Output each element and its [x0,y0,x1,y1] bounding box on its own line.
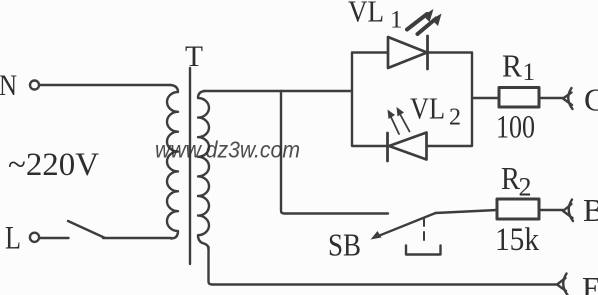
svg-text:N: N [0,69,17,102]
LED VL1 emission arrows [407,14,436,34]
svg-text:www.dz3w.com: www.dz3w.com [155,137,300,163]
LED box outline [352,53,388,147]
resistor R2 [497,199,539,219]
switch SB actuator dashed link [423,218,425,246]
wire R2 to terminal B [539,209,563,211]
wire secondary top to LED box [204,90,352,92]
svg-text:R: R [502,48,523,84]
terminal N [30,81,39,90]
LED VL2 [389,133,427,160]
switch SB button cap [406,246,441,255]
wire SB to R2 [436,210,498,213]
svg-text:VL: VL [410,91,445,126]
LED VL1 [388,37,427,68]
svg-text:B: B [583,192,598,228]
svg-text:15k: 15k [495,222,539,258]
terminal C [563,93,572,106]
transformer T primary winding [167,85,178,239]
svg-text:100: 100 [496,110,535,146]
svg-text:T: T [185,40,203,73]
wire N to transformer primary [40,84,171,86]
transformer T secondary winding [198,91,209,249]
terminal L [30,233,39,242]
wire junction to switch SB [281,91,388,214]
terminal E [557,278,566,291]
svg-text:SB: SB [328,227,361,263]
svg-text:L: L [5,221,21,257]
wire L to switch S [39,237,69,239]
LED VL2 emission arrows [391,114,410,134]
switch SB blade [377,213,436,237]
svg-text:1: 1 [390,7,403,34]
terminal B [563,204,573,218]
svg-text:2: 2 [519,173,532,202]
switch S (mains, open blade) [68,221,104,238]
resistor R1 [499,88,539,108]
LED VL2 cathode bar [386,133,389,161]
transformer core [189,68,191,264]
wire R1 to terminal C [539,97,563,99]
svg-text:E: E [582,270,598,295]
svg-text:2: 2 [449,105,461,131]
svg-text:VL: VL [348,0,384,29]
wire LED box to R1 [472,97,499,99]
wire secondary bottom to terminal E [209,247,558,285]
LED VL1 cathode bar [426,36,429,69]
svg-text:~220V: ~220V [8,147,99,183]
svg-text:1: 1 [523,59,536,86]
svg-text:C: C [584,82,598,118]
wire switch S to transformer primary [103,237,171,239]
